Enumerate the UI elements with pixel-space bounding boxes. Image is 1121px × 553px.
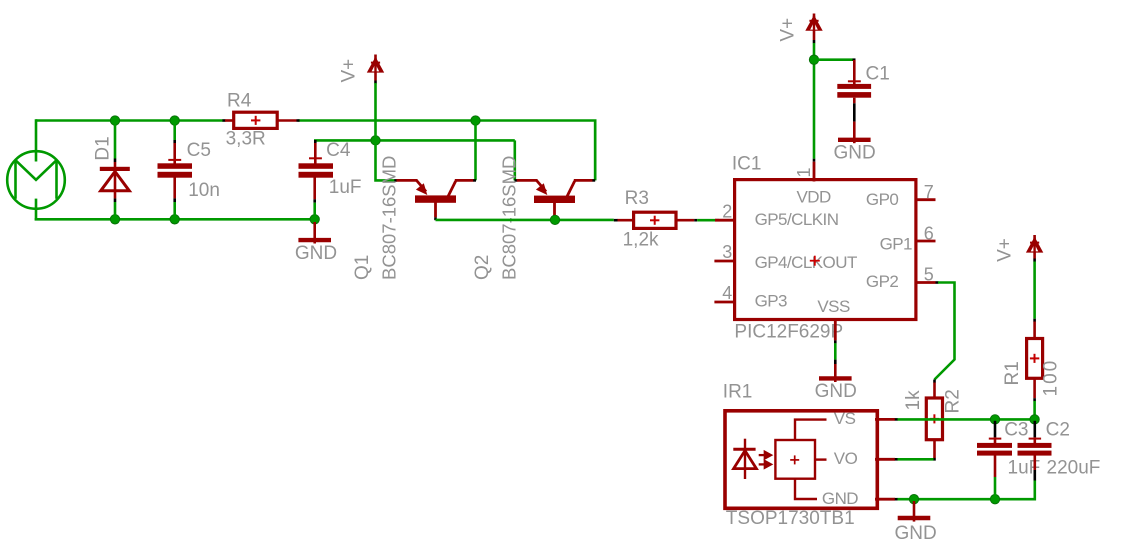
transistor Q1 BC807-16SMD — [394, 180, 476, 220]
pin stub VS — [875, 418, 895, 421]
svg-text:IC1: IC1 — [732, 153, 762, 174]
svg-text:TSOP1730TB1: TSOP1730TB1 — [726, 508, 855, 529]
node dot GND rail at IR1 — [909, 495, 918, 504]
ground GND at VSS — [819, 364, 852, 382]
node dot V+ drop on C4 wire — [371, 136, 380, 145]
svg-text:GND: GND — [834, 142, 876, 163]
supply V+ above Q1 — [367, 55, 384, 84]
resistor R3 — [614, 212, 697, 228]
svg-text:IR1: IR1 — [723, 381, 753, 402]
svg-text:VS: VS — [834, 409, 856, 428]
pin 6 stub — [916, 240, 936, 243]
pin 8 stub VSS — [834, 319, 837, 341]
inner line to GND — [795, 479, 817, 499]
wire bottom rail — [35, 218, 315, 221]
amplifier square inside IR1 — [775, 440, 815, 479]
pin 7 stub — [916, 198, 936, 201]
wire C4 top to Q2 emitter corner — [314, 139, 515, 142]
wire Q1 collector riser — [474, 122, 477, 180]
svg-text:V+: V+ — [994, 238, 1015, 262]
pin 1 stub VDD — [813, 162, 816, 182]
svg-text:VDD: VDD — [797, 188, 832, 207]
svg-text:GP5/CLKIN: GP5/CLKIN — [755, 210, 839, 229]
pin stub GND — [875, 498, 895, 501]
svg-text:100: 100 — [1041, 359, 1062, 397]
node dot C2 top — [1030, 415, 1039, 424]
pin 5 stub — [916, 281, 936, 284]
svg-text:VO: VO — [834, 449, 858, 468]
pin 2 stub — [715, 219, 736, 222]
svg-text:3,3R: 3,3R — [226, 129, 266, 150]
wire V+ to IC1 pin 1 — [813, 43, 816, 159]
wire C5 top — [173, 122, 176, 140]
svg-text:GP1: GP1 — [880, 235, 912, 254]
pin stub VO — [875, 458, 895, 461]
node dot Q1 collector top — [471, 116, 480, 125]
wire VO to R2 — [898, 458, 934, 461]
svg-text:V+: V+ — [777, 18, 798, 42]
wire V+ drop to Q1 emitter — [376, 83, 395, 180]
node dot D1 top — [110, 116, 119, 125]
svg-text:7: 7 — [924, 182, 934, 202]
ground GND below rail — [898, 501, 931, 522]
svg-text:C3: C3 — [1004, 420, 1028, 441]
svg-text:GP2: GP2 — [866, 272, 898, 291]
wire C5 bottom — [173, 202, 176, 218]
photodiode inside IR1 — [733, 439, 756, 479]
node dot C3 bottom — [990, 495, 999, 504]
svg-text:D1: D1 — [93, 136, 114, 160]
svg-text:GP4/CLKOUT: GP4/CLKOUT — [755, 253, 857, 272]
wire motor bottom pin — [35, 199, 38, 221]
diode D1 — [100, 159, 130, 203]
svg-text:R3: R3 — [625, 188, 649, 209]
wire GND rail bottom — [898, 480, 1035, 499]
svg-text:1uF: 1uF — [329, 177, 362, 198]
svg-text:3: 3 — [722, 242, 732, 262]
svg-text:R1: R1 — [1002, 361, 1023, 385]
wire VSS to GND — [834, 343, 837, 359]
wire V+ to C1 — [814, 58, 853, 61]
wire C1 to GND (black) — [853, 103, 856, 121]
node dot Q2 base — [550, 215, 559, 224]
svg-text:BC807-16SMD: BC807-16SMD — [378, 156, 399, 280]
wire top rail left of R4 — [36, 119, 223, 122]
svg-text:4: 4 — [722, 283, 732, 303]
wire R1 to VS rail — [1033, 401, 1036, 418]
node dot V+ C1 branch — [809, 55, 818, 64]
svg-text:C2: C2 — [1046, 420, 1070, 441]
wire IC1 pin 5 to R2 — [936, 281, 939, 284]
svg-text:10n: 10n — [188, 180, 220, 201]
motor M1 — [7, 151, 65, 209]
svg-text:C4: C4 — [326, 140, 351, 161]
wire D1 top — [114, 122, 117, 159]
svg-text:GND: GND — [895, 523, 937, 544]
origin cross of IR1 — [790, 455, 799, 464]
svg-text:Q1: Q1 — [352, 255, 373, 280]
svg-text:R2: R2 — [943, 389, 964, 413]
svg-text:V+: V+ — [339, 59, 360, 83]
pin 3 stub — [714, 260, 736, 263]
svg-text:BC807-16SMD: BC807-16SMD — [498, 156, 519, 280]
resistor R4 — [223, 112, 300, 128]
svg-text:GP0: GP0 — [866, 190, 898, 209]
ground GND at C1 — [838, 122, 871, 144]
svg-text:GND: GND — [822, 489, 858, 508]
svg-text:1,2k: 1,2k — [623, 229, 659, 250]
wire Q2 collector riser — [594, 122, 597, 180]
svg-text:Q2: Q2 — [472, 255, 493, 280]
node dot C5 top — [170, 116, 179, 125]
capacitor C3 — [977, 421, 1012, 498]
pin 4 stub — [714, 301, 736, 304]
svg-text:VSS: VSS — [817, 297, 850, 316]
svg-text:220uF: 220uF — [1047, 458, 1101, 479]
IC IC1 box — [735, 180, 916, 320]
svg-text:GND: GND — [295, 243, 337, 264]
svg-text:R4: R4 — [227, 90, 252, 111]
svg-text:6: 6 — [924, 223, 934, 243]
svg-text:1k: 1k — [903, 390, 924, 411]
svg-text:1: 1 — [794, 167, 814, 177]
capacitor C2 — [1018, 421, 1052, 481]
IR arrows inside IR1 — [759, 452, 771, 468]
wire Q2 emitter drop from C4 wire — [513, 140, 516, 180]
ground GND at C4 — [298, 222, 331, 244]
node dot C5 bottom — [170, 215, 179, 224]
capacitor C1 — [837, 60, 871, 103]
wire motor top pin — [35, 119, 38, 161]
wire top rail right of R4 to Q2 collector corner — [299, 121, 596, 181]
capacitor C4 — [299, 140, 334, 215]
svg-text:GND: GND — [815, 381, 857, 402]
wire V+ to R1 — [1033, 262, 1036, 319]
inner line to VS — [795, 420, 827, 440]
svg-text:PIC12F629P: PIC12F629P — [734, 321, 843, 342]
wire R3 to IC1 pin 2 — [697, 219, 716, 222]
svg-text:2: 2 — [722, 201, 732, 221]
svg-text:5: 5 — [924, 264, 934, 284]
inner line to VO — [815, 458, 827, 460]
node dot D1 bottom — [110, 215, 119, 224]
IC IR1 box — [725, 411, 877, 509]
wire VS rail — [898, 418, 1035, 421]
transistor Q2 BC807-16SMD — [515, 180, 596, 220]
wire base rail Q1 Q2 to R3 — [436, 219, 614, 222]
node dot C4 bottom — [310, 215, 319, 224]
svg-text:C5: C5 — [187, 140, 211, 161]
svg-text:GP3: GP3 — [755, 292, 787, 311]
supply V+ above IC1 — [805, 14, 822, 44]
supply V+ above R1 — [1026, 235, 1043, 262]
node dot C3 top — [990, 415, 999, 424]
svg-text:C1: C1 — [866, 64, 890, 85]
resistor R1 — [1027, 322, 1043, 402]
origin cross of IC1 — [810, 256, 820, 266]
capacitor C5 — [158, 140, 193, 202]
resistor R2 — [926, 383, 942, 461]
wire D1 bottom — [114, 202, 117, 218]
